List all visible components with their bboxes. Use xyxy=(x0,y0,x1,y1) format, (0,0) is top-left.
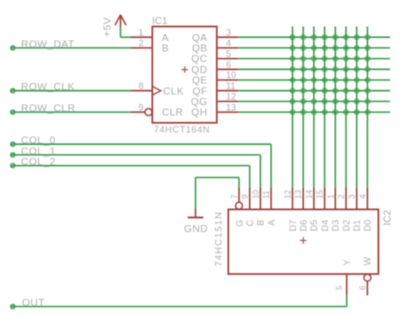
junction r2c6 xyxy=(343,45,349,51)
wire column D7 vertical xyxy=(292,27,294,189)
junction r4c7 xyxy=(354,66,360,72)
svg-text:6: 6 xyxy=(226,60,231,70)
junction r4c6 xyxy=(343,66,349,72)
IC2 pin 1 D3 stub xyxy=(334,188,336,209)
junction r3c4 xyxy=(322,56,328,62)
junction r6c6 xyxy=(343,88,349,94)
IC1 pin 10 QE stub xyxy=(217,79,238,81)
wire COL_0 vertical to IC2 pin A xyxy=(270,144,272,189)
IC2 pin 5 Y stub xyxy=(346,274,348,295)
port ROW_CLR terminal xyxy=(11,110,15,114)
svg-text:7: 7 xyxy=(230,194,239,199)
junction r7c4 xyxy=(322,99,328,105)
wire column D6 vertical xyxy=(302,27,304,189)
junction r6c3 xyxy=(311,88,317,94)
junction r3c7 xyxy=(354,56,360,62)
IC2 origin cross xyxy=(300,237,306,243)
wire net ROW_CLR xyxy=(11,111,132,113)
svg-text:14: 14 xyxy=(305,189,314,198)
IC2 pin 10 B stub xyxy=(259,188,261,209)
supply +5V arrow xyxy=(115,15,126,27)
port COL_1 terminal xyxy=(11,153,15,157)
junction r4c3 xyxy=(311,66,317,72)
junction r2c3 xyxy=(311,45,317,51)
IC2 pin 15 D4 stub xyxy=(324,188,326,209)
junction r8c3 xyxy=(311,109,317,115)
IC1 origin cross xyxy=(182,66,188,72)
junction r5c3 xyxy=(311,77,317,83)
svg-text:Y: Y xyxy=(342,259,352,265)
svg-text:B: B xyxy=(256,220,266,226)
svg-text:3: 3 xyxy=(348,194,357,199)
svg-text:QF: QF xyxy=(193,86,208,97)
junction r4c5 xyxy=(332,66,338,72)
svg-text:QH: QH xyxy=(191,108,207,119)
IC1 pin 5 QC stub xyxy=(217,58,238,60)
junction r1c3 xyxy=(311,34,317,40)
svg-text:1: 1 xyxy=(138,27,143,37)
junction r3c6 xyxy=(343,56,349,62)
wire row QH to matrix xyxy=(238,111,390,113)
junction r4c1 xyxy=(290,66,296,72)
svg-text:G: G xyxy=(234,220,244,227)
svg-text:B: B xyxy=(162,44,169,55)
junction r3c5 xyxy=(332,56,338,62)
svg-text:CLR: CLR xyxy=(162,108,184,119)
wire +5V to IC1 pin1 vertical xyxy=(120,26,122,37)
svg-text:D7: D7 xyxy=(288,220,298,232)
junction r6c2 xyxy=(300,88,306,94)
wire net ROW_CLK xyxy=(11,90,132,92)
svg-text:QG: QG xyxy=(191,97,208,108)
port OUT terminal xyxy=(11,304,15,308)
junction r2c5 xyxy=(332,45,338,51)
wire net ROW_DAT xyxy=(11,47,132,49)
junction r1c2 xyxy=(300,34,306,40)
junction r4c4 xyxy=(322,66,328,72)
IC1 pin 13 QH stub xyxy=(217,111,238,113)
junction r3c8 xyxy=(365,56,371,62)
svg-text:11: 11 xyxy=(226,81,235,91)
junction r1c6 xyxy=(343,34,349,40)
junction r8c6 xyxy=(343,109,349,115)
svg-text:8: 8 xyxy=(138,81,143,91)
IC2 pin G inversion bubble xyxy=(236,202,243,209)
IC2 pin 2 D2 stub xyxy=(345,188,347,209)
junction r5c5 xyxy=(332,77,338,83)
port ROW_CLK terminal xyxy=(11,89,15,93)
svg-text:ROW_CLK: ROW_CLK xyxy=(21,82,75,93)
op IC1 box xyxy=(152,27,217,123)
junction r2c7 xyxy=(354,45,360,51)
port ROW_DAT terminal xyxy=(11,46,15,50)
IC2 pin 7 G stub xyxy=(238,188,240,202)
svg-text:COL_2: COL_2 xyxy=(21,157,56,168)
wire GND to IC2 pin G horizontal xyxy=(196,177,240,179)
IC2 pin 3 D1 stub xyxy=(356,188,358,209)
junction r6c5 xyxy=(332,88,338,94)
svg-text:D2: D2 xyxy=(341,220,351,232)
IC2 pin 12 D7 stub xyxy=(292,188,294,209)
wire net OUT xyxy=(11,306,347,308)
IC1 pin 3 QA stub xyxy=(217,36,238,38)
svg-text:COL_0: COL_0 xyxy=(21,136,56,147)
svg-text:QC: QC xyxy=(191,54,207,65)
junction r5c7 xyxy=(354,77,360,83)
svg-text:9: 9 xyxy=(138,102,143,112)
svg-text:13: 13 xyxy=(226,102,236,112)
wire row QE to matrix xyxy=(238,79,390,81)
svg-text:10: 10 xyxy=(226,70,236,80)
mux IC2 box xyxy=(228,209,378,274)
IC1 pin 9 inversion bubble xyxy=(145,109,152,116)
svg-text:ROW_CLR: ROW_CLR xyxy=(21,104,75,115)
svg-text:QE: QE xyxy=(192,76,208,87)
svg-text:A: A xyxy=(162,33,169,44)
IC2 pin 6 W stub xyxy=(364,274,371,295)
svg-text:6: 6 xyxy=(358,285,367,290)
junction r1c4 xyxy=(322,34,328,40)
IC2 pin 13 D6 stub xyxy=(302,188,304,209)
junction r6c8 xyxy=(365,88,371,94)
wire row QA to matrix xyxy=(238,36,390,38)
wire row QG to matrix xyxy=(238,100,390,102)
junction r1c7 xyxy=(354,34,360,40)
junction r5c4 xyxy=(322,77,328,83)
junction r2c1 xyxy=(290,45,296,51)
junction r7c6 xyxy=(343,99,349,105)
svg-text:11: 11 xyxy=(262,190,271,199)
junction r5c2 xyxy=(300,77,306,83)
junction r1c1 xyxy=(290,34,296,40)
wire net COL_2 xyxy=(11,165,250,167)
svg-text:5: 5 xyxy=(226,49,231,59)
wire COL_1 vertical to IC2 pin B xyxy=(259,155,261,189)
wire column D2 vertical xyxy=(345,27,347,189)
wire column D5 vertical xyxy=(313,27,315,189)
IC1 pin 8 CLK stub xyxy=(131,90,152,92)
IC2 pin 11 A stub xyxy=(270,188,272,209)
svg-text:D1: D1 xyxy=(352,220,362,232)
svg-text:D3: D3 xyxy=(331,220,341,232)
svg-text:OUT: OUT xyxy=(22,298,45,309)
svg-text:+5V: +5V xyxy=(103,17,114,37)
junction r6c4 xyxy=(322,88,328,94)
junction r8c2 xyxy=(300,109,306,115)
junction r3c3 xyxy=(311,56,317,62)
svg-text:4: 4 xyxy=(226,38,231,48)
svg-text:74HC151N: 74HC151N xyxy=(214,211,224,267)
wire column D1 vertical xyxy=(356,27,358,189)
svg-text:D4: D4 xyxy=(320,220,330,232)
wire Y to OUT vertical xyxy=(346,295,348,307)
IC1 pin 1 stub xyxy=(131,36,152,38)
IC1 pin 12 QG stub xyxy=(217,100,238,102)
wire row QF to matrix xyxy=(238,90,390,92)
junction r7c8 xyxy=(365,99,371,105)
IC2 pin 4 D0 stub xyxy=(366,188,368,209)
svg-text:QA: QA xyxy=(192,33,208,44)
svg-text:3: 3 xyxy=(226,27,231,37)
svg-text:74HCT164N: 74HCT164N xyxy=(154,125,210,135)
IC2 pin 14 D5 stub xyxy=(313,188,315,209)
svg-text:QD: QD xyxy=(191,65,207,76)
junction r2c2 xyxy=(300,45,306,51)
wire column D4 vertical xyxy=(324,27,326,189)
svg-text:COL_1: COL_1 xyxy=(21,146,56,157)
junction r7c5 xyxy=(332,99,338,105)
svg-text:12: 12 xyxy=(284,189,293,198)
svg-text:9: 9 xyxy=(241,194,250,199)
junction r7c2 xyxy=(300,99,306,105)
svg-text:12: 12 xyxy=(226,92,236,102)
wire net COL_0 xyxy=(11,143,272,145)
svg-text:QB: QB xyxy=(192,44,208,55)
junction r8c7 xyxy=(354,109,360,115)
wire net COL_1 xyxy=(11,154,261,156)
junction r5c1 xyxy=(290,77,296,83)
junction r5c6 xyxy=(343,77,349,83)
junction r7c7 xyxy=(354,99,360,105)
svg-text:CLK: CLK xyxy=(163,86,184,97)
svg-text:1: 1 xyxy=(326,194,335,199)
svg-text:D5: D5 xyxy=(309,220,319,232)
junction r8c5 xyxy=(332,109,338,115)
svg-text:5: 5 xyxy=(335,285,344,290)
junction r1c8 xyxy=(365,34,371,40)
svg-text:4: 4 xyxy=(358,194,367,199)
IC1 pin 9 CLR stub xyxy=(131,111,145,113)
wire +5V to IC1 pin1 horizontal xyxy=(121,36,133,38)
junction r1c5 xyxy=(332,34,338,40)
wire column D3 vertical xyxy=(334,27,336,189)
wire COL_2 vertical to IC2 pin C xyxy=(249,166,251,189)
wire row QC to matrix xyxy=(238,58,390,60)
junction r6c7 xyxy=(354,88,360,94)
svg-text:IC2: IC2 xyxy=(383,210,394,226)
svg-text:GND: GND xyxy=(184,224,208,235)
svg-text:ROW_DAT: ROW_DAT xyxy=(21,39,75,50)
svg-text:13: 13 xyxy=(294,189,303,198)
IC1 CLK triangle xyxy=(152,86,161,95)
junction r7c1 xyxy=(290,99,296,105)
svg-text:10: 10 xyxy=(251,189,260,198)
svg-text:W: W xyxy=(363,257,373,266)
svg-text:15: 15 xyxy=(316,189,325,198)
svg-text:D0: D0 xyxy=(363,220,373,232)
junction r4c2 xyxy=(300,66,306,72)
junction r4c8 xyxy=(365,66,371,72)
junction r2c8 xyxy=(365,45,371,51)
wire row QB to matrix xyxy=(238,47,390,49)
svg-text:2: 2 xyxy=(337,194,346,199)
port COL_2 terminal xyxy=(11,164,15,168)
wire G pin vertical xyxy=(238,178,240,189)
ground GND symbol xyxy=(188,209,204,218)
junction r3c1 xyxy=(290,56,296,62)
junction r5c8 xyxy=(365,77,371,83)
wire GND vertical xyxy=(195,178,197,210)
svg-text:IC1: IC1 xyxy=(152,16,168,27)
IC1 pin 6 QD stub xyxy=(217,68,238,70)
junction r8c4 xyxy=(322,109,328,115)
junction r8c1 xyxy=(290,109,296,115)
svg-text:C: C xyxy=(245,219,255,226)
junction r6c1 xyxy=(290,88,296,94)
IC1 pin 11 QF stub xyxy=(217,90,238,92)
IC1 pin 2 stub xyxy=(131,47,152,49)
junction r3c2 xyxy=(300,56,306,62)
svg-text:2: 2 xyxy=(138,38,143,48)
wire column D0 vertical xyxy=(366,27,368,189)
junction r7c3 xyxy=(311,99,317,105)
svg-text:D6: D6 xyxy=(299,220,309,232)
IC1 pin 4 QB stub xyxy=(217,47,238,49)
port COL_0 terminal xyxy=(11,142,15,146)
junction r2c4 xyxy=(322,45,328,51)
IC2 pin 9 C stub xyxy=(249,188,251,209)
wire row QD to matrix xyxy=(238,68,390,70)
svg-text:A: A xyxy=(266,220,276,226)
junction r8c8 xyxy=(365,109,371,115)
